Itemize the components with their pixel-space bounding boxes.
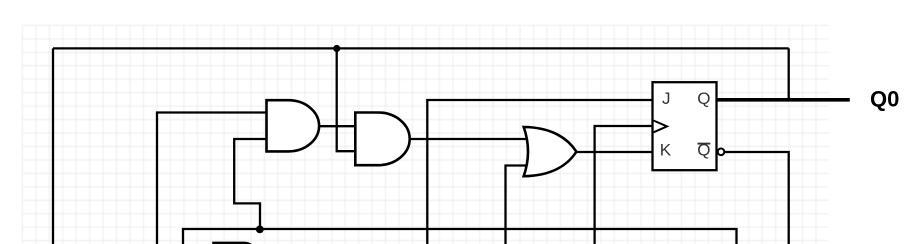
JK flip-flop U1 box [653,82,717,170]
svg-text:J: J [662,89,671,108]
wire Q-bar output [725,152,789,244]
wire AND1 lower input [234,139,267,229]
wire left vertical feedback [52,48,54,244]
junction dot top [333,45,340,52]
wire junction down to AND2 lower input [337,48,356,151]
wire Q-to-top vertical [788,48,790,99]
svg-text:Q: Q [697,89,710,108]
AND gate A3 (partial, bottom edge) [214,243,254,244]
wire AND2 output to OR [408,138,528,140]
AND gate A2 [355,113,409,166]
wire OR lower input feed [506,166,530,244]
OR gate O1 [524,127,577,176]
wire Q0 output (thick) [717,98,850,102]
overbar of Q-bar [698,143,711,145]
wire OR output to K input [574,151,653,153]
wire AND1 output to AND2 [317,125,356,127]
wire J input feed [427,100,653,244]
junction dot bottom [256,226,264,234]
clock triangle [654,121,668,133]
inversion bubble on Q-bar [718,149,725,156]
svg-text:Q0: Q0 [870,87,899,112]
svg-text:K: K [660,141,672,160]
wire top feedback horizontal [53,47,789,49]
AND gate A1 [267,100,320,151]
wire bottom bus [183,229,737,244]
wire clock feed [595,126,654,244]
wire AND1 upper input [157,113,267,244]
